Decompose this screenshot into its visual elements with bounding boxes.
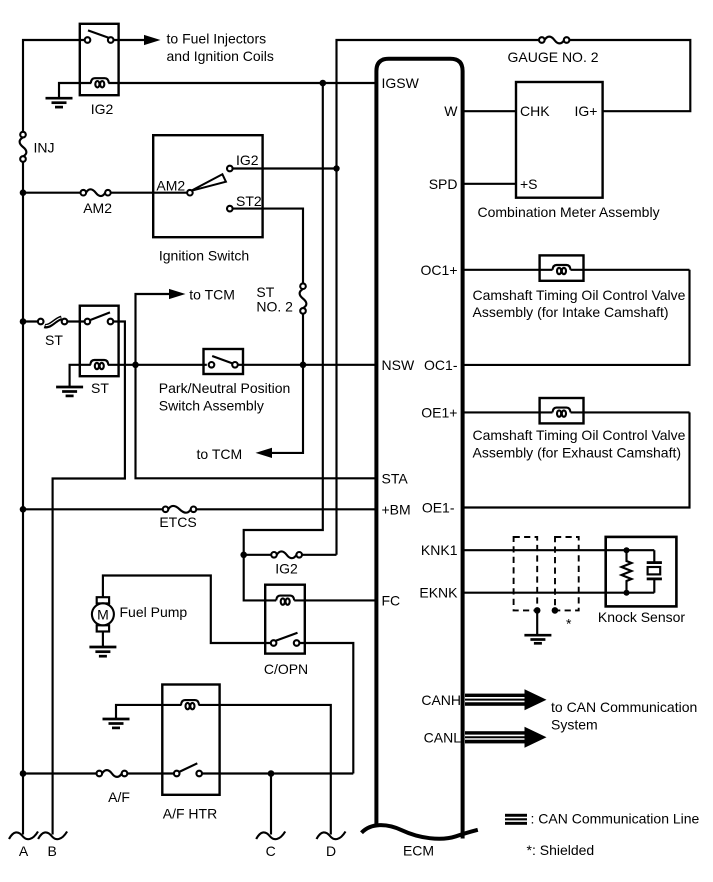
knock sensor box <box>606 537 677 607</box>
park/neutral switch box <box>204 349 244 374</box>
wire battery rail A upper <box>23 40 85 132</box>
svg-text:IG2: IG2 <box>236 152 259 168</box>
svg-text:to TCM: to TCM <box>197 446 243 462</box>
wire +BM <box>23 508 377 510</box>
fuse INJ <box>20 132 27 162</box>
wire ST NO.2 down <box>272 314 303 453</box>
fuse A/F <box>97 770 128 777</box>
wire relay IG2 output <box>113 39 144 41</box>
ignition switch box <box>153 135 262 237</box>
fuse GAUGE NO.2 <box>539 37 569 44</box>
valve 1 coil <box>553 265 571 274</box>
relay ST contacts <box>85 319 114 325</box>
ignition switch ST2 contact <box>227 206 233 212</box>
svg-text:B: B <box>48 843 57 859</box>
svg-text:Camshaft Timing Oil Control Va: Camshaft Timing Oil Control Valve <box>473 287 686 303</box>
wire A/F coil to connector D <box>199 705 331 835</box>
wire OE1 return <box>461 412 690 507</box>
svg-text:Knock Sensor: Knock Sensor <box>598 609 685 625</box>
fuse ST NO.2 <box>300 283 307 313</box>
wire GAUGE riser <box>337 40 540 555</box>
wire IG2 fuse line <box>244 554 337 556</box>
junction AM2 tap <box>20 189 27 196</box>
combination meter box <box>516 82 603 198</box>
relay IG2 coil <box>91 78 109 87</box>
ground shield <box>524 635 551 643</box>
svg-text:and Ignition Coils: and Ignition Coils <box>167 48 274 64</box>
wire ST relay to connector B <box>53 322 125 835</box>
shield dashed box 1 <box>514 537 538 610</box>
ignition switch IG2 contact <box>227 166 233 172</box>
relay ST blade <box>90 312 110 320</box>
ground IG2 relay <box>46 98 73 107</box>
svg-text:NSW: NSW <box>382 357 415 373</box>
svg-text:M: M <box>97 606 109 622</box>
svg-text:STA: STA <box>382 470 409 486</box>
relay A/F HTR box <box>162 685 219 795</box>
svg-text:IG+: IG+ <box>575 103 598 119</box>
shield dashed box 2 <box>555 537 579 610</box>
junction +BM tap <box>20 506 27 513</box>
wire OC1+ <box>461 269 690 271</box>
ground ST relay <box>56 387 83 396</box>
svg-text:W: W <box>444 103 458 119</box>
svg-text:ST2: ST2 <box>236 193 262 209</box>
svg-text:A/F: A/F <box>108 789 130 805</box>
svg-text:AM2: AM2 <box>156 178 185 194</box>
junction A/F tap <box>20 770 27 777</box>
wire IGSW net coil to ECM <box>108 82 377 84</box>
relay IG2 box <box>80 24 119 95</box>
svg-text:ST: ST <box>91 380 109 396</box>
ignition switch blade wedge <box>191 174 226 191</box>
relay C/OPN box <box>265 585 305 654</box>
wire A/F line <box>23 772 353 774</box>
svg-text:IG2: IG2 <box>91 101 114 117</box>
wire SPD <box>461 183 516 185</box>
piezo element <box>647 550 662 593</box>
wire W <box>461 110 516 112</box>
junction shield 2 <box>552 607 559 614</box>
svg-text:Camshaft Timing Oil Control Va: Camshaft Timing Oil Control Valve <box>473 427 686 443</box>
svg-text:C/OPN: C/OPN <box>264 661 308 677</box>
relay IG2 switch contacts <box>85 37 114 43</box>
svg-text:INJ: INJ <box>34 140 55 156</box>
wire C/OPN to fuel pump <box>103 576 271 644</box>
junction IG2 riser <box>333 165 339 171</box>
svg-text:Park/Neutral Position: Park/Neutral Position <box>159 380 291 396</box>
svg-text:+S: +S <box>520 176 538 192</box>
fuse ETCS <box>163 506 197 513</box>
svg-text:KNK1: KNK1 <box>421 542 458 558</box>
wire ST2 to fuse ST NO.2 <box>233 209 303 284</box>
svg-text:CANH: CANH <box>421 692 461 708</box>
svg-text:ST: ST <box>45 332 63 348</box>
svg-text:AM2: AM2 <box>83 200 112 216</box>
ECM bottom wave <box>362 825 478 839</box>
svg-text:Assembly (for Intake Camshaft): Assembly (for Intake Camshaft) <box>473 304 669 320</box>
wire NSW net <box>108 364 377 366</box>
wire IGSW branch to C/OPN coil <box>244 83 323 600</box>
arrow to fuel injectors <box>144 35 161 45</box>
junction ST fusible tap <box>20 318 27 325</box>
wire connector C drop <box>270 774 272 835</box>
arrow to TCM upper <box>169 289 186 299</box>
wire STA <box>136 365 378 479</box>
svg-text:System: System <box>551 717 598 733</box>
svg-text:SPD: SPD <box>429 176 458 192</box>
wire OE1+ <box>461 411 690 413</box>
wire fuel pump to ground <box>102 632 104 648</box>
wire ST fusible feed <box>23 320 85 322</box>
valve 2 box <box>540 398 584 423</box>
fuse IG2 <box>271 551 302 558</box>
wire battery rail A lower <box>22 162 24 835</box>
wire C/OPN output down <box>299 643 353 774</box>
relay A/F HTR blade <box>179 763 197 772</box>
svg-text:OE1+: OE1+ <box>421 404 457 420</box>
relay ST coil <box>90 360 108 369</box>
fuel pump motor <box>92 597 114 631</box>
park/neutral blade <box>212 356 232 363</box>
svg-text:Assembly (for Exhaust Camshaft: Assembly (for Exhaust Camshaft) <box>473 444 682 460</box>
connector D break <box>317 832 346 840</box>
connector A break <box>9 832 38 840</box>
junction IGSW branch <box>320 80 327 87</box>
svg-text:CANL: CANL <box>424 729 462 745</box>
svg-text:Ignition Switch: Ignition Switch <box>159 247 249 263</box>
ground A/F HTR <box>103 719 130 728</box>
wire GAUGE to IG+ <box>569 40 690 111</box>
svg-text:A/F HTR: A/F HTR <box>163 805 217 821</box>
valve 1 box <box>540 255 584 280</box>
junction NSW at ST NO.2 <box>300 362 307 369</box>
CAN arrow CANH <box>465 689 547 710</box>
wire IG2 contact to riser <box>233 167 337 169</box>
relay C/OPN contacts <box>271 640 300 646</box>
junction shield 1 <box>534 607 541 614</box>
fuse AM2 <box>81 189 111 196</box>
relay A/F HTR contacts <box>174 771 202 777</box>
svg-text:Combination Meter Assembly: Combination Meter Assembly <box>478 204 660 220</box>
svg-text:*: * <box>566 616 572 632</box>
svg-text:IGSW: IGSW <box>382 75 420 91</box>
wire FC <box>294 599 377 601</box>
svg-text:: CAN Communication Line: : CAN Communication Line <box>531 811 700 827</box>
junction KNK1 resistor <box>624 547 630 553</box>
wire ST coil to ground <box>70 365 91 387</box>
junction STA TCM node <box>132 362 139 369</box>
arrow to TCM lower <box>256 448 273 458</box>
wire AM2 feed <box>23 192 187 194</box>
wire KNK1 <box>461 549 654 551</box>
svg-text:ECM: ECM <box>403 843 434 859</box>
svg-text:to CAN Communication: to CAN Communication <box>551 699 697 715</box>
CAN arrow CANL <box>465 727 547 748</box>
legend CAN line symbol <box>505 814 527 825</box>
svg-text:CHK: CHK <box>520 103 550 119</box>
svg-text:+BM: +BM <box>382 501 411 517</box>
resistor knock sensor <box>622 552 632 592</box>
junction EKNK resistor <box>624 590 630 596</box>
svg-text:FC: FC <box>382 592 401 608</box>
relay A/F HTR coil <box>181 700 199 709</box>
svg-text:IG2: IG2 <box>275 560 298 576</box>
svg-text:OC1+: OC1+ <box>421 262 458 278</box>
relay C/OPN coil <box>276 596 294 605</box>
wire EKNK <box>461 592 654 594</box>
valve 2 coil <box>553 408 571 417</box>
connector B break <box>38 832 67 840</box>
svg-text:A: A <box>19 843 29 859</box>
svg-text:ETCS: ETCS <box>159 514 196 530</box>
svg-text:D: D <box>326 843 336 859</box>
svg-text:Fuel Pump: Fuel Pump <box>120 604 188 620</box>
wire OC1 return <box>461 270 690 365</box>
park/neutral contacts <box>209 362 238 368</box>
wire shield to ground <box>536 610 538 634</box>
svg-text:GAUGE NO. 2: GAUGE NO. 2 <box>507 49 598 65</box>
relay C/OPN blade <box>276 633 298 641</box>
svg-text:Switch Assembly: Switch Assembly <box>159 398 264 414</box>
ground fuel pump <box>89 647 116 656</box>
relay IG2 switch blade <box>88 30 109 37</box>
junction IG2 fuse tap <box>240 552 247 559</box>
relay ST box <box>80 306 119 377</box>
junction connector C tap <box>268 770 275 777</box>
wire IG2 coil to ground <box>59 83 91 98</box>
svg-text:C: C <box>266 843 276 859</box>
svg-text:*: Shielded: *: Shielded <box>527 842 595 858</box>
ECM box <box>376 59 462 839</box>
connector C break <box>256 832 285 840</box>
svg-text:OC1-: OC1- <box>424 357 458 373</box>
svg-text:OE1-: OE1- <box>422 500 455 516</box>
svg-text:to TCM: to TCM <box>189 287 235 303</box>
svg-text:NO. 2: NO. 2 <box>256 299 293 315</box>
ignition switch AM2 contact <box>187 190 193 196</box>
svg-text:EKNK: EKNK <box>419 585 458 601</box>
wire to TCM upper <box>136 294 170 365</box>
svg-text:to Fuel Injectors: to Fuel Injectors <box>167 30 267 46</box>
wire A/F coil to ground <box>116 705 182 719</box>
fusible link ST <box>38 318 67 326</box>
